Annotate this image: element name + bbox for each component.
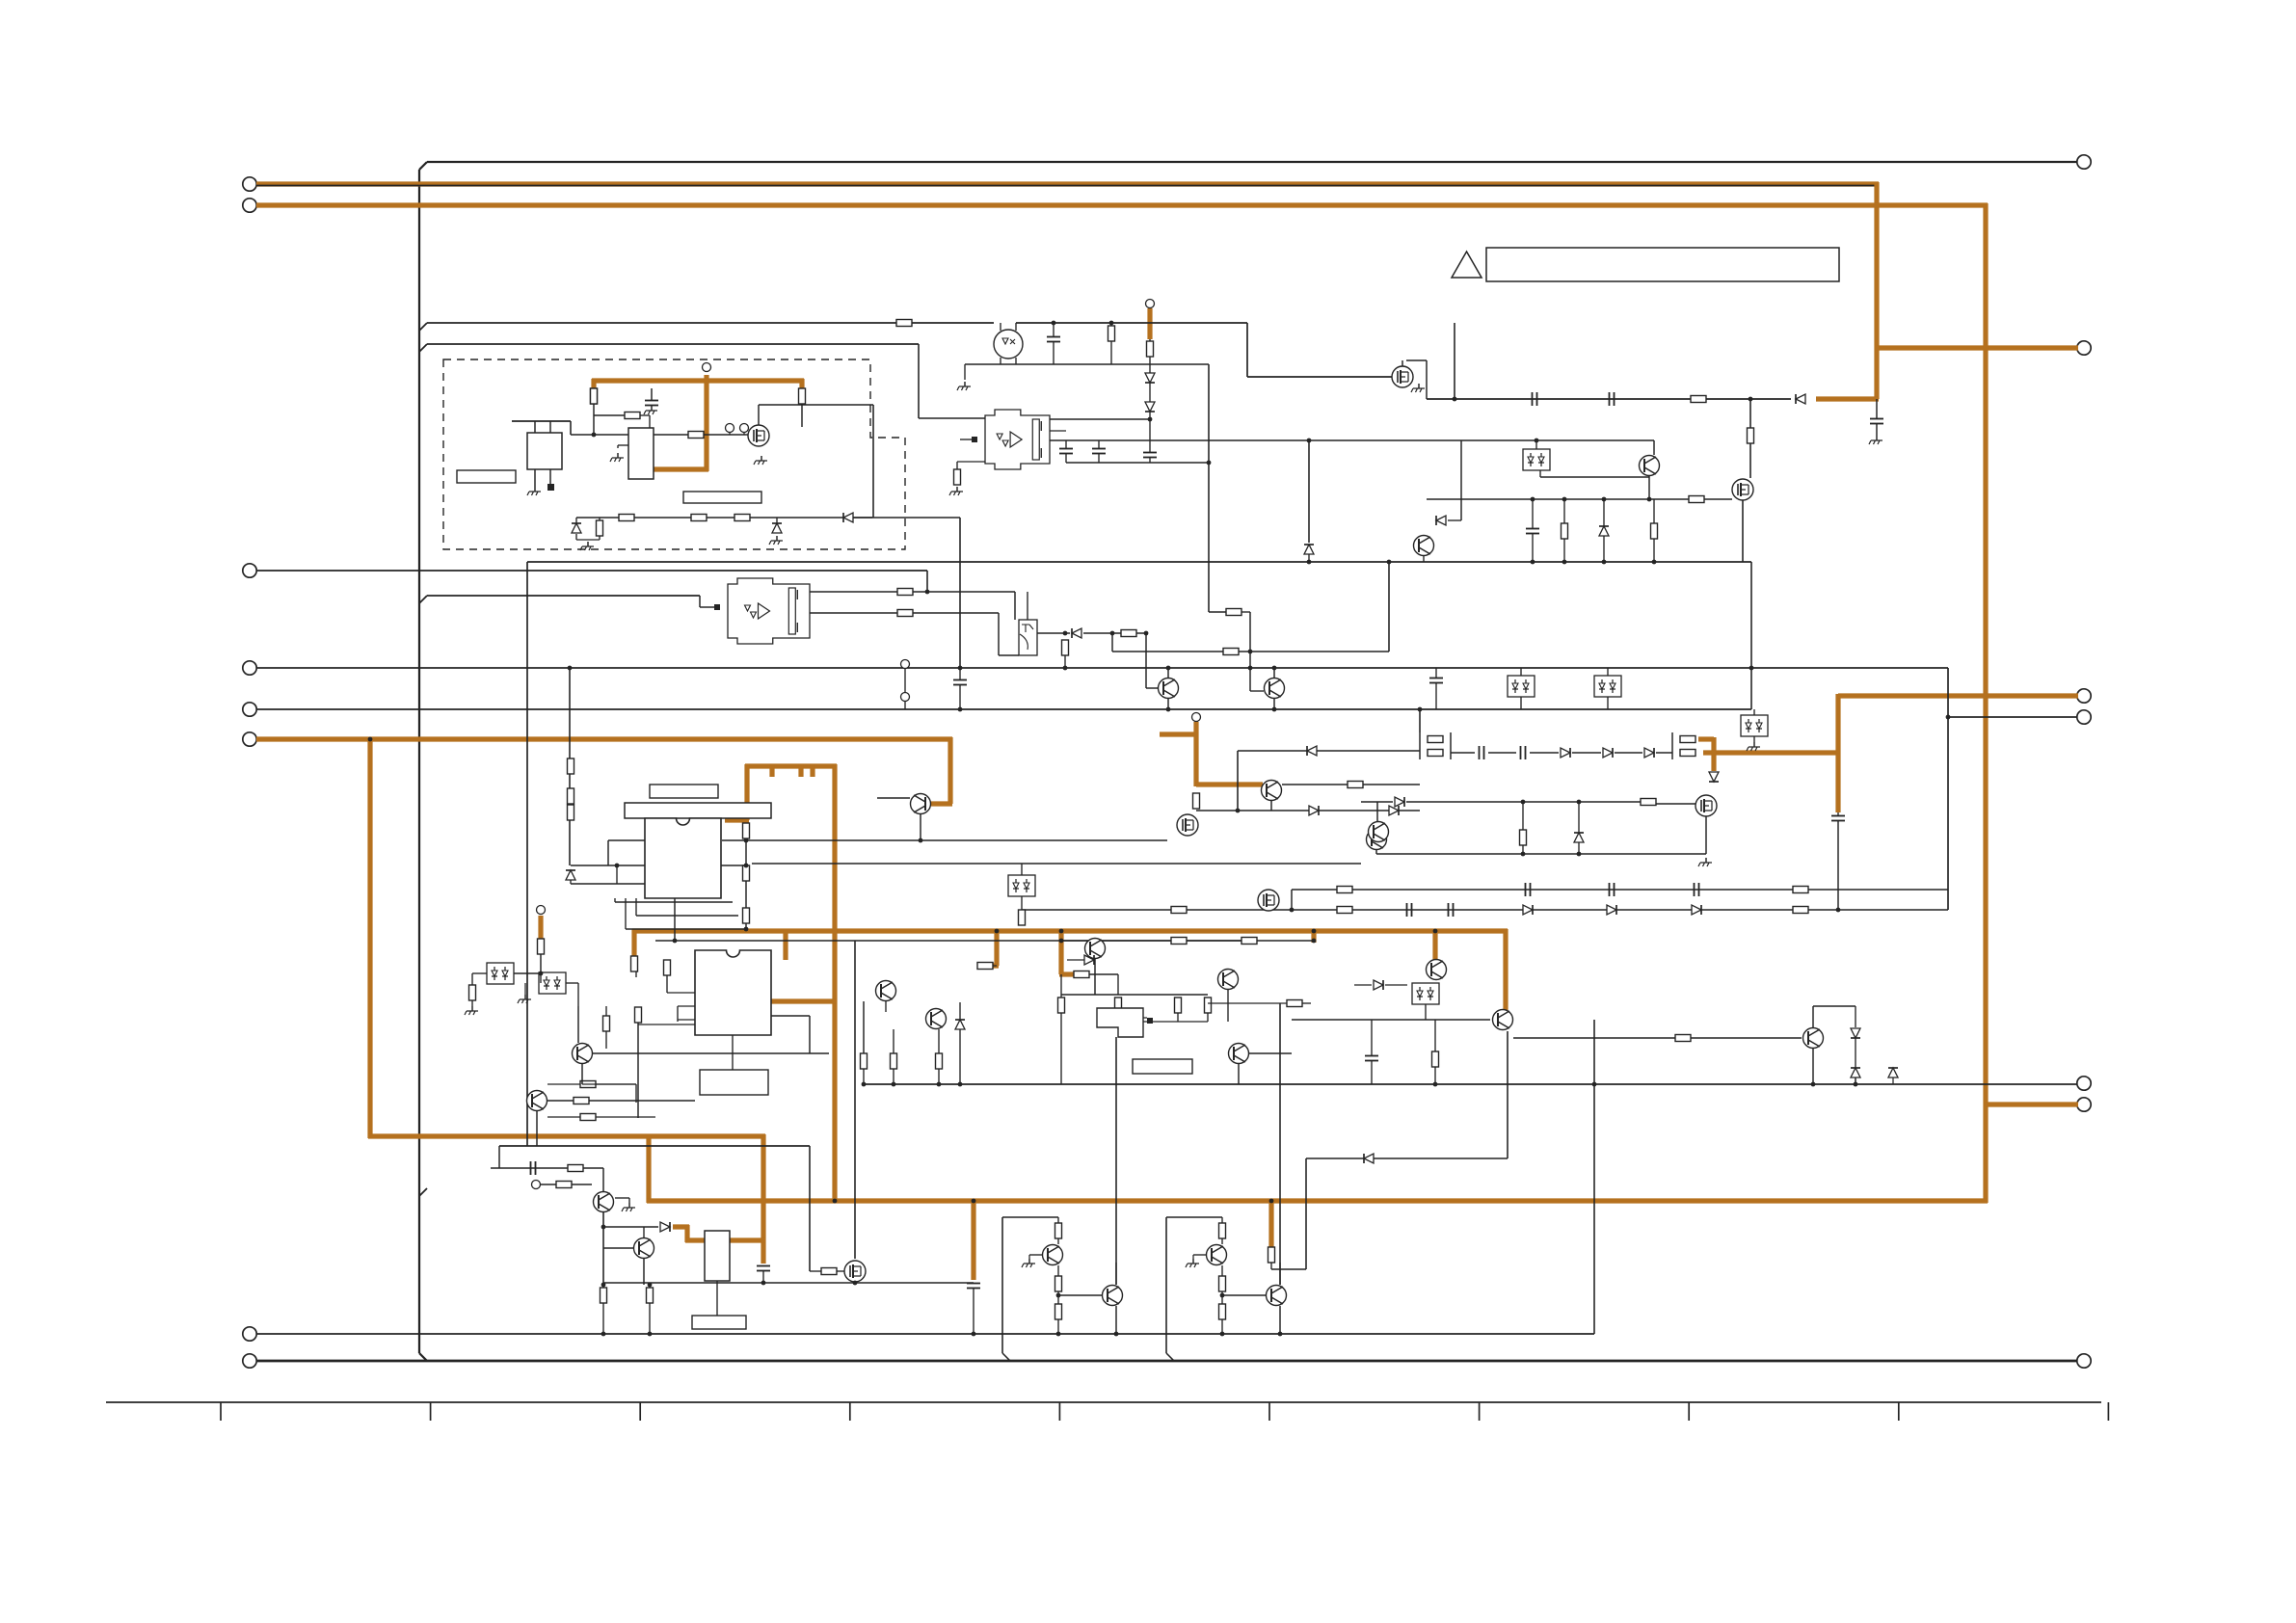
wire long vertical x1328 xyxy=(1279,1003,1281,1285)
zener pair ZD3 xyxy=(1741,715,1768,736)
resistor R10 xyxy=(1108,326,1115,341)
resistor R68 xyxy=(1651,523,1658,539)
wire Q31 out row xyxy=(1282,784,1348,785)
wire D30 link xyxy=(1448,519,1461,521)
wire Q17 emitter xyxy=(938,1029,940,1053)
resistor R44 xyxy=(1241,938,1257,945)
label box L4 xyxy=(650,785,718,798)
wire R25 top xyxy=(1522,802,1524,830)
terminal P2-4 xyxy=(2077,710,2091,724)
wire vertical x840 xyxy=(809,1146,811,1271)
wire D13 top xyxy=(1578,802,1580,833)
wire NET-B branch to terminal xyxy=(1986,1102,2078,1106)
resistor R27 xyxy=(1793,887,1808,893)
ground GND-C1 xyxy=(644,406,657,414)
terminal P1-6 xyxy=(243,732,256,746)
junction NET-C branch xyxy=(368,737,373,742)
wire row y635 xyxy=(1209,611,1226,613)
wire TP1 stem xyxy=(729,432,731,435)
wire x774 b xyxy=(745,881,747,908)
label box L7 xyxy=(692,1316,746,1329)
wire groupB base row xyxy=(1222,1294,1266,1296)
transistor Q11 xyxy=(573,1044,593,1064)
junction J3 xyxy=(1602,560,1607,565)
diode D24 xyxy=(1888,1068,1898,1078)
junction groupA Q2/y1384 xyxy=(1114,1332,1119,1337)
resistor R46 xyxy=(1074,971,1089,978)
wire U2 out row y435 xyxy=(1050,418,1150,420)
wire groupB bracket top xyxy=(1166,1216,1222,1218)
wire R10 top xyxy=(1110,323,1112,326)
wire row y1032 xyxy=(1061,994,1208,996)
wire D19 left xyxy=(1354,984,1372,986)
diode D19 xyxy=(1374,980,1383,990)
ground GND5 xyxy=(1411,384,1425,392)
wire NET-A top orange run xyxy=(256,181,1879,186)
wire groupB gnd stem xyxy=(1192,1255,1194,1259)
dashed isolation box xyxy=(443,359,905,549)
wire right block edge x2021 xyxy=(1947,668,1949,910)
wire Q14 emitter xyxy=(1227,990,1229,1022)
wire NET-H elbow xyxy=(1698,736,1714,741)
wire NET-H vertical xyxy=(1835,694,1840,812)
wire groupA bracket top xyxy=(1002,1216,1058,1218)
wire vertical x1358 xyxy=(1308,440,1310,543)
wire T1 pin4 xyxy=(549,469,551,484)
wire Q20 emitter drop xyxy=(602,1212,604,1285)
resistor R-gA3 xyxy=(1055,1304,1062,1319)
wire Q7 gate xyxy=(1250,690,1264,692)
wire R68 bottom xyxy=(1653,539,1655,562)
wire to pair2 xyxy=(1656,752,1672,754)
groupA bracket chamfer xyxy=(1002,1353,1010,1361)
junction row414/x1816 xyxy=(1749,397,1753,402)
wire U4 bottom row y936 xyxy=(615,901,733,903)
transistor Q16 xyxy=(876,981,896,1001)
wire R67 bottom xyxy=(1563,539,1565,562)
transistor Q17 xyxy=(926,1009,947,1029)
diode D28 xyxy=(1307,746,1317,756)
wire NET-H diode stub xyxy=(1711,737,1716,771)
wire ZD1 top xyxy=(1520,668,1522,676)
junction F stub2 xyxy=(1059,929,1064,934)
resistor R2 xyxy=(625,412,640,419)
wire NET-G left drop xyxy=(744,764,749,820)
wire D21 bottom xyxy=(1855,1038,1856,1084)
wire NET-D left hook xyxy=(591,379,596,389)
resistor R-gB3 xyxy=(1219,1304,1226,1319)
diode D15 xyxy=(1607,905,1616,915)
resistor R72 xyxy=(635,1007,642,1023)
wire x774 a xyxy=(745,838,747,865)
capacitor C9 xyxy=(1610,392,1615,406)
wire D4-D5 xyxy=(1149,383,1151,402)
wire Q7 emitter xyxy=(1273,699,1275,709)
wire NET-C stub to C49 xyxy=(971,1199,975,1280)
wire ZD4 left xyxy=(472,972,487,974)
gate driver U2 xyxy=(985,410,1050,469)
junction Q5/Q4row xyxy=(1647,497,1652,502)
wire long row y976 xyxy=(655,940,1314,942)
wire C23 top xyxy=(1532,499,1534,528)
resistor R12 xyxy=(1691,396,1706,403)
opto ZD5 xyxy=(539,972,566,994)
wire row y832 l xyxy=(1361,801,1393,803)
wire NET-G IC1 pin xyxy=(725,817,749,822)
wire Q19 collector xyxy=(1812,1006,1814,1027)
wire U3 input link xyxy=(700,606,714,608)
wire U5 pin xyxy=(667,992,695,994)
wire switch out xyxy=(1037,632,1070,634)
transistor Q-gA1 xyxy=(1043,1245,1063,1265)
wire R3 to Q1 xyxy=(704,434,748,436)
wire C21 bottom xyxy=(762,1271,764,1283)
wire R66 row xyxy=(1208,1002,1287,1004)
wire row y676 xyxy=(1112,651,1389,652)
wire C6 top xyxy=(1876,399,1878,418)
wire ZD3 gnd stem xyxy=(1753,736,1755,742)
IC U1 regulator xyxy=(628,428,654,479)
resistor R61 xyxy=(1268,1247,1275,1263)
junction R1/U1 xyxy=(592,433,597,438)
resistor R-gB1 xyxy=(1219,1223,1226,1238)
capacitor C22 xyxy=(967,1284,980,1289)
diode D16 xyxy=(1692,905,1701,915)
wire NET-G long vertical xyxy=(832,764,837,1203)
diode D29 xyxy=(1304,545,1314,554)
wire R16 right xyxy=(913,591,1015,593)
wire NET-F stub 3 xyxy=(1311,929,1316,943)
U6 pin mark xyxy=(1147,1018,1153,1024)
junction J18 xyxy=(1312,939,1317,944)
wire groupA Q2 emitter xyxy=(1115,1306,1117,1334)
wire ZD8 to Q5 xyxy=(1540,476,1649,478)
wire C2 top xyxy=(1053,323,1055,336)
wire C23 bottom xyxy=(1532,534,1534,562)
wire W22 xyxy=(1691,1037,1802,1039)
wire Q21 base xyxy=(603,1247,633,1249)
bus branch chamfer D xyxy=(419,1188,427,1196)
wire long row y736 xyxy=(256,708,1751,710)
junction groupA/y1384 xyxy=(1056,1332,1061,1337)
terminal P2-6 xyxy=(2077,1098,2091,1111)
capacitor C7 xyxy=(1831,816,1845,821)
wire U4 bottom row y950 xyxy=(636,915,738,917)
junction J15 xyxy=(744,864,749,868)
wire NET-F drop to Q41 xyxy=(1503,929,1508,1010)
wire row y618 from bus xyxy=(427,595,700,597)
label box L6 xyxy=(1133,1059,1192,1074)
wire NET-C main orange bus y1246 xyxy=(647,1198,1988,1203)
IC U7 regulator xyxy=(705,1231,730,1281)
wire Q6 gate xyxy=(1146,687,1158,689)
diode D23 xyxy=(1851,1068,1860,1078)
ruler tick 8 xyxy=(1688,1402,1690,1421)
diode D5 xyxy=(1145,402,1155,412)
MOSFET Q1 xyxy=(748,425,769,446)
junction R10/y335 xyxy=(1109,321,1114,326)
wire Q20 collector xyxy=(602,1168,604,1191)
wire NET-G stub r2 xyxy=(798,764,803,777)
wire R42 bottom xyxy=(666,975,668,993)
junction x1284/y841 xyxy=(1236,809,1241,813)
junction J33 xyxy=(972,1332,976,1337)
wire D31 bottom xyxy=(1603,536,1605,562)
transistor Q24 xyxy=(1369,822,1389,842)
wire vertical x1254 xyxy=(1208,364,1210,612)
wire R39 top xyxy=(605,1006,607,1016)
test point TP4 xyxy=(901,660,910,669)
capacitor C12 xyxy=(1480,746,1484,759)
wire long row y693 xyxy=(256,667,1948,669)
resistor R23 xyxy=(1680,750,1695,757)
junction F stub1 xyxy=(995,929,1000,934)
resistor R71 xyxy=(574,1098,589,1104)
wire R52 bot xyxy=(893,1069,894,1084)
wire Q1 drain xyxy=(758,405,760,425)
junction bus/R61 xyxy=(1269,1199,1274,1204)
terminal P2-5 xyxy=(2077,1077,2091,1090)
wire NET-C IC3 right pin xyxy=(730,1237,765,1242)
resistor R21 xyxy=(1428,750,1443,757)
wire terminal row y592 xyxy=(256,570,927,572)
wire NET-F bus y966 xyxy=(632,928,1508,933)
wire Q15 out xyxy=(1249,1052,1292,1054)
resistor R43 xyxy=(1171,938,1187,945)
ruler tick 6 xyxy=(1268,1402,1270,1421)
wire R61 bottom xyxy=(1270,1263,1272,1269)
terminal P1-4 xyxy=(243,661,256,675)
wire R39 bottom xyxy=(605,1031,607,1049)
transistor Q31 xyxy=(1262,781,1282,801)
wire groupB Q2 collector xyxy=(1279,1263,1281,1285)
ground GND-Q1 xyxy=(754,456,767,465)
junction x1358/y457 xyxy=(1307,439,1312,443)
wire pair join L xyxy=(1419,732,1421,759)
resistor R30 xyxy=(1793,907,1808,914)
wire row y976 right xyxy=(1061,940,1249,942)
resistor R11 xyxy=(1147,341,1154,357)
wire NET-F stub 1 xyxy=(994,929,999,966)
wire NET-B top orange run xyxy=(256,202,1988,207)
ground GND10 xyxy=(1698,858,1712,866)
wire W9 xyxy=(614,898,616,902)
wire Q23 base xyxy=(877,797,910,799)
terminal P1-2 xyxy=(243,199,256,212)
diode D12 xyxy=(1395,797,1404,807)
wire U5 right pin2 xyxy=(771,1015,810,1017)
terminal P1-3 xyxy=(243,564,256,577)
wire W6 xyxy=(1572,752,1601,754)
diode D22 xyxy=(1364,1154,1374,1163)
capacitor C23 xyxy=(1526,529,1539,534)
ground GND3 xyxy=(769,536,783,545)
wire dashed-box right rail xyxy=(872,405,874,518)
wire groupA bracket left xyxy=(1001,1217,1003,1353)
wire Q19 emitter xyxy=(1812,1049,1814,1084)
wire C11 top xyxy=(959,668,961,679)
wire row y480 xyxy=(1066,462,1209,464)
main left bus xyxy=(418,170,420,1353)
wire vertical x1355 xyxy=(1305,1158,1307,1269)
MOSFET Q10 xyxy=(1258,890,1279,911)
wire W11 xyxy=(625,898,627,929)
wire C3 top xyxy=(1065,440,1067,448)
wire U4 pin drop xyxy=(674,898,676,941)
wire row y1058 xyxy=(1292,1019,1490,1021)
junction x1817/y693 xyxy=(1749,666,1754,671)
ground GND-T1 xyxy=(527,487,541,495)
resistor R58 xyxy=(601,1288,607,1303)
wire long row y583 xyxy=(527,561,1751,563)
ground GND9 xyxy=(1747,742,1760,751)
wire R2 drop xyxy=(649,415,651,428)
junction y898 xyxy=(615,864,620,868)
wire NET-D drop xyxy=(704,375,708,471)
wire x1816 drop xyxy=(1749,399,1751,478)
ground GND-gB xyxy=(1186,1259,1199,1267)
transistor Q-gB2 xyxy=(1267,1286,1287,1306)
wire NET-G top xyxy=(745,763,837,768)
wire C19 top xyxy=(1371,1020,1373,1055)
resistor R34 xyxy=(743,823,750,838)
test point TP8 xyxy=(1192,713,1201,722)
bus branch chamfer C xyxy=(419,596,427,603)
wire x631 drop xyxy=(607,840,609,865)
resistor R24 xyxy=(1641,799,1656,806)
wire U4 left pin y872 xyxy=(608,839,645,841)
wire R1 bottom xyxy=(593,404,595,435)
diode D7 xyxy=(1072,628,1081,638)
junction x591/y693 xyxy=(568,666,573,671)
capacitor C20 xyxy=(531,1161,536,1175)
wire NET-A black core xyxy=(256,185,1877,187)
resistor R17 xyxy=(897,610,913,617)
resistor R-gB2 xyxy=(1219,1276,1226,1291)
wire NET-E to Q31 xyxy=(1196,782,1263,786)
wire R40 right xyxy=(596,1083,636,1085)
wire R17 right xyxy=(913,612,999,614)
wire row y1202 xyxy=(1361,1157,1508,1159)
wire row y779 xyxy=(1238,750,1420,752)
frame bottom-left chamfer xyxy=(419,1353,427,1361)
wire W10 xyxy=(635,898,637,916)
wire C10 bottom xyxy=(1435,683,1437,709)
wire row y414 r xyxy=(1706,398,1791,400)
junction F stub3 xyxy=(1312,929,1317,934)
label box L5 xyxy=(700,1070,768,1095)
junction J9 xyxy=(958,707,963,712)
terminal P1-5 xyxy=(243,703,256,716)
wire R41 row xyxy=(547,1116,580,1118)
wire R58 bottom xyxy=(602,1303,604,1334)
junction J4 xyxy=(1652,560,1657,565)
resistor R1 xyxy=(591,388,598,404)
zener pair ZD7 xyxy=(1412,983,1439,1004)
zener pair ZD1 xyxy=(1508,676,1535,697)
wire GND-U1 stub xyxy=(618,444,628,446)
wire NET-D right hook xyxy=(799,379,804,389)
wire row y1011 xyxy=(1089,973,1118,975)
terminal P2-3 xyxy=(2077,689,2091,703)
border ruler line xyxy=(106,1401,2101,1403)
ruler tick 10 xyxy=(2107,1402,2109,1421)
resistor R54 xyxy=(1432,1051,1439,1067)
wire U2 input xyxy=(960,439,972,440)
MOSFET Q8 xyxy=(1695,795,1717,816)
frame top-left chamfer xyxy=(419,162,427,170)
wire Q13 emitter xyxy=(1094,959,1096,995)
resistor R70 xyxy=(1223,649,1239,655)
capacitor C13 xyxy=(1521,746,1526,759)
wire rows join x1340 xyxy=(1291,890,1293,910)
wire Q5 emitter xyxy=(1648,476,1650,499)
wire x591 chain xyxy=(569,758,571,865)
resistor R28 xyxy=(1171,907,1187,914)
wire Q12 emitter drop xyxy=(536,1111,538,1146)
opto ZD4 xyxy=(487,963,514,984)
junction J25 xyxy=(1433,1082,1438,1087)
wire vertical x1441 xyxy=(1388,562,1390,652)
wire Q1 drain top xyxy=(759,404,873,406)
wire NET-F left hook xyxy=(631,929,636,956)
wire groupB top stub xyxy=(1221,1217,1223,1223)
junction x1473/y736 xyxy=(1418,707,1423,712)
resistor R35 xyxy=(743,865,750,881)
capacitor C17 xyxy=(1407,903,1412,917)
wire W25 xyxy=(602,1285,604,1288)
junction Q7/y736 xyxy=(1272,707,1277,712)
wire to terminal y744 xyxy=(1948,716,2077,718)
capacitor C3 xyxy=(1059,449,1073,454)
bus branch chamfer B xyxy=(419,344,427,352)
wire W12 xyxy=(471,973,473,985)
wire row y814 right xyxy=(1363,784,1420,785)
wire Q6 gate drop xyxy=(1145,633,1147,688)
junction F stub4 xyxy=(1433,929,1438,934)
wire vertical x1654 xyxy=(1593,1020,1595,1334)
wire U3 row y636 xyxy=(810,612,897,614)
diode D3 xyxy=(843,513,853,522)
wire R41 right xyxy=(596,1116,655,1118)
resistor R49 xyxy=(1175,998,1182,1013)
junction J2 xyxy=(1562,560,1567,565)
wire row y1142 xyxy=(547,1100,695,1102)
resistor R57 xyxy=(556,1182,572,1188)
label box L1 xyxy=(457,470,516,483)
junction R65/y693 xyxy=(1063,666,1068,671)
wire Q5 collector xyxy=(1653,440,1655,455)
wire Q15 emitter xyxy=(1238,1064,1240,1084)
bottom rail xyxy=(256,1360,2077,1363)
wire Q3 drain xyxy=(1402,360,1403,366)
wire C11 bot xyxy=(959,685,961,709)
wire GND-U1 stem xyxy=(617,445,619,448)
junction x962/y614 xyxy=(925,590,930,595)
diode D20 xyxy=(955,1020,965,1029)
terminal P1-8 xyxy=(243,1354,256,1368)
resistor R65 xyxy=(1062,640,1069,655)
transistor Q18 xyxy=(1493,1010,1513,1030)
wire R48 bottom xyxy=(1117,1013,1119,1022)
wire pins join xyxy=(616,865,618,884)
wire row y357 xyxy=(427,343,919,345)
wire groupA bottom xyxy=(1057,1291,1059,1334)
opto Q2 innards xyxy=(1002,338,1015,344)
wire W5 xyxy=(1530,752,1559,754)
resistor R3 xyxy=(688,432,704,439)
ground GND7 xyxy=(1869,436,1882,444)
